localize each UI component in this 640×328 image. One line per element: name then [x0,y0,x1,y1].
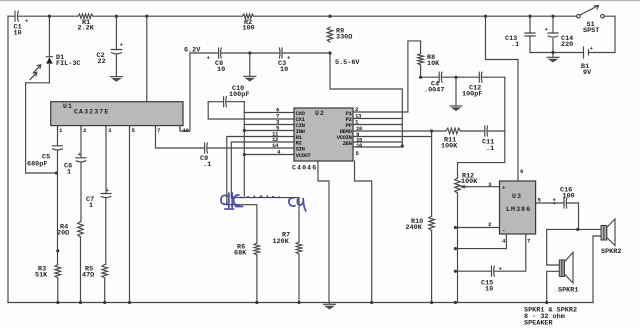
battery B1 9V [584,45,594,58]
wire U2 R1 row to R6 [227,137,294,303]
potentiometer R12 [455,178,468,193]
svg-text:U3: U3 [512,193,522,200]
label C8 value [215,60,225,74]
resistor R3 [55,265,61,279]
svg-text:SPST: SPST [583,27,599,35]
wire C4 C12 filter line [421,76,505,78]
wire U2 VDD row [353,146,402,148]
label C14 value [561,35,573,49]
wire R12 bottom ground column [457,193,459,303]
label R4 value [57,224,69,238]
label B1 [581,63,592,77]
svg-text:6.2V: 6.2V [184,47,201,55]
label S1 [583,21,599,35]
svg-text:1: 1 [89,202,93,210]
svg-text:5.5-6V: 5.5-6V [335,59,360,67]
label C6 value [64,163,72,177]
svg-text:16: 16 [356,142,363,149]
svg-text:220: 220 [561,41,573,49]
svg-text:.1: .1 [203,161,211,169]
capacitor C6 [76,151,86,162]
svg-text:680pF: 680pF [27,161,47,169]
label R2 value [243,19,255,33]
resistor R6 [254,243,260,255]
svg-text:100: 100 [243,24,255,32]
capacitor C10 [224,97,227,107]
resistor R7 [296,242,302,254]
label supply range [335,59,360,67]
svg-text:100: 100 [563,193,575,201]
resistor R9 [327,27,333,42]
svg-text:100K: 100K [461,178,478,186]
label C2 value [97,52,106,66]
svg-text:LM386: LM386 [506,206,531,213]
ground below C4 C12 junction [450,77,462,111]
svg-text:.0047: .0047 [424,87,444,95]
svg-text:100pF: 100pF [229,91,249,99]
IC U3 LM386 [488,168,557,245]
label R1 value [78,19,95,33]
wire C14 ground stem [552,53,554,58]
capacitor C11 [485,126,488,136]
capacitor C4 [439,72,442,82]
resistor R11 [446,128,460,134]
wire U1 pin7 to C9 to U2 SIN [156,126,295,148]
wire C10 top [208,101,244,103]
svg-text:10: 10 [217,66,225,74]
capacitor C5 [53,146,63,150]
wire U3 pin3 from R12 wiper [463,186,500,188]
ground below C2 [110,77,122,82]
wire U2 VCOIN row [353,136,432,138]
capacitor C16 [553,198,567,208]
capacitor C13 [525,33,535,36]
svg-text:100pF: 100pF [462,91,482,99]
wire C2 branch [115,16,117,76]
wire U2 P2 row [353,118,402,120]
label C9 value [200,155,211,169]
svg-text:ZEN: ZEN [343,140,353,147]
ground main rail [324,303,336,310]
label R6 value [234,244,247,258]
wire U2 DEMO row to R11 C11 [353,130,505,132]
svg-text:-: - [502,227,505,234]
resistor R1 [78,14,93,18]
svg-text:100K: 100K [441,143,458,151]
label R5 value [82,266,94,280]
svg-text:SPKR2: SPKR2 [601,248,621,256]
svg-text:SPKR1: SPKR1 [558,287,578,295]
label R9 value [336,28,352,42]
wire supply to U3 pin6 [486,16,519,181]
resistor R10 [429,216,435,230]
label C13 value [505,35,519,49]
wire U1 pin5 column [129,126,131,303]
wire output node to SPKR2 [579,228,602,230]
svg-text:9V: 9V [583,69,592,77]
label R3 value [35,266,48,280]
wire U2 CIN row [244,124,294,126]
label SPKR1 [558,287,578,295]
wire switch to battery loop [530,16,615,52]
wire U2 CXO row [244,112,294,114]
wire output node to SPKR1 [547,229,579,265]
capacitor C14 [545,26,559,37]
svg-text:2.2K: 2.2K [78,24,95,32]
wire SPKR2 return [593,236,601,303]
svg-text:SPEAKER: SPEAKER [524,320,553,328]
svg-text:VCOUT: VCOUT [296,152,312,159]
wire U2 pin8 to rail [355,161,372,303]
wire U2 ZEN row [353,141,402,143]
svg-text:C4046: C4046 [292,165,317,172]
handwritten blue annotation [221,193,306,211]
capacitor C15 [492,266,503,277]
capacitor C12 [479,72,482,82]
ground on 6.2V line [244,53,256,82]
wire C13 stem [529,16,531,52]
wire C14 stem [552,16,554,52]
svg-text:22: 22 [98,58,106,66]
svg-text:FIL-3C: FIL-3C [56,60,80,68]
wire U1 pin2 column [80,126,83,303]
svg-text:240K: 240K [406,224,423,232]
wire SPKR1 return [547,271,560,302]
label C4 value [424,81,444,95]
ground below C14 [547,57,559,62]
svg-text:1: 1 [67,169,71,177]
node 6.2V supply line [180,53,330,131]
wire U3 pin7 via C15 [455,234,525,271]
svg-text:10: 10 [485,286,493,294]
label R7 value [273,232,291,247]
wire D1 branch to C5 node [26,16,57,173]
svg-text:10: 10 [183,127,190,134]
wire U1 pin1 column [57,126,59,303]
svg-text:20Ω: 20Ω [57,230,69,238]
label 6.2V node [184,47,201,55]
resistor R5 [102,265,108,279]
capacitor C3 [279,48,291,62]
label C7 value [86,196,94,210]
IC U2 C4046 [272,106,363,172]
capacitor C2 [111,42,123,54]
svg-text:10: 10 [280,66,288,74]
svg-text:.1: .1 [486,145,494,153]
wire R10 column [431,131,433,303]
wire U2 CX1 row [208,102,294,119]
label C12 value [462,85,482,99]
label C1 value [14,24,22,38]
label R12 value [461,173,478,187]
wire U2 bottom-left to main ground [318,161,329,303]
svg-text:10K: 10K [427,60,440,68]
photodiode D1 FIL-3C [30,57,53,80]
svg-text:CA3237E: CA3237E [74,109,109,116]
label C3 value [278,60,288,74]
wire U2 CIN-INH-VCOUT tie column [243,102,245,196]
svg-text:U1: U1 [63,103,73,110]
wire U3 pin5 output via C16 [536,203,579,229]
wire U2 VCOUT row [244,154,294,156]
wire U3 pin4 ground [455,234,506,249]
label C10 value [229,85,249,99]
label C15 value [481,280,493,294]
label R10 value [406,218,424,232]
wire U2 PP row [353,124,402,126]
wire left edge vertical [7,16,9,302]
speaker SPKR2 [601,219,615,246]
capacitor C8 [207,48,222,62]
svg-text:68K: 68K [234,250,247,258]
switch S1 SPST [577,6,605,19]
label D1 [56,54,80,68]
label C16 value [560,187,575,201]
svg-text:10: 10 [14,30,22,38]
label C11 value [482,139,494,154]
capacitor C7 [101,187,111,198]
wire bottom ground rail [8,302,593,304]
wire U2 P1 row to R8 bridge [353,41,421,112]
IC U1 CA3237E [51,102,190,134]
wire top supply rail [8,15,577,17]
note speaker types [524,307,577,328]
label C5 value [27,154,50,169]
wire R9 to pin13/16 step [330,53,402,146]
label R11 value [441,137,458,151]
svg-text:51K: 51K [35,272,48,280]
wire U1 pin3 column [105,126,106,303]
wire U2 R2 row to R7 [231,142,299,303]
wire C12 to R12 top [458,77,505,178]
svg-text:330Ω: 330Ω [336,34,352,42]
resistor R8 [418,53,424,65]
label SPKR2 [601,248,621,256]
resistor R4 [78,222,84,238]
svg-text:.1: .1 [511,41,519,49]
wire U1 Vcc top [146,16,148,102]
label R8 value [427,54,440,68]
speaker SPKR1 [559,252,573,283]
wire U2 INH row [244,130,294,132]
svg-text:U2: U2 [315,110,325,117]
capacitor C1 [15,11,29,24]
capacitor C9 [205,143,208,153]
wire U3 pin2 [455,227,499,229]
svg-text:120K: 120K [273,238,290,246]
resistor R2 [243,14,254,18]
svg-text:47Ω: 47Ω [82,272,94,280]
